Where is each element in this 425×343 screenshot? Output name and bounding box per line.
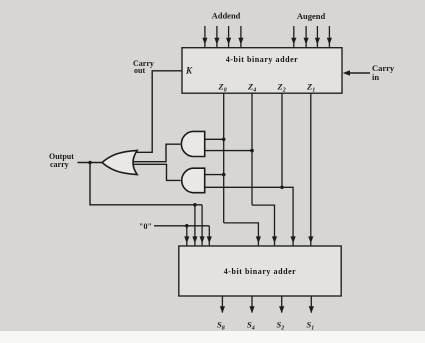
wire zero branch 2 into U2 (207, 226, 212, 246)
wire Z4 jog into U2 (252, 205, 277, 246)
wire output-carry feedback down and right (90, 163, 202, 205)
bottom white band (0, 331, 425, 343)
augend input arrow 4 (327, 26, 332, 47)
output arrow S1 (309, 296, 314, 313)
wire AND1 output jog to OR (133, 144, 181, 162)
augend input arrow 3 (315, 26, 320, 47)
wire "0" line (154, 225, 209, 227)
wire zero branch 1 into U2 (184, 226, 189, 246)
wire Z8 jog into U2 (224, 223, 261, 246)
svg-text:Augend: Augend (297, 11, 326, 21)
wire AND2 output jog to OR (133, 164, 181, 180)
junction dot Z4/AND1 (250, 149, 254, 153)
junction dot Z2/AND2 (280, 186, 284, 190)
wire Z4 vertical (251, 93, 253, 205)
or gate G1 (points left) (102, 150, 137, 174)
wire feedback branch 1 into U2 (192, 205, 197, 246)
addend input arrow 2 (214, 26, 219, 47)
junction dot Z8/AND1 (222, 138, 226, 142)
wire AND1 input B to Z4 (205, 150, 252, 152)
augend input arrow 1 (291, 26, 296, 47)
junction dot on feedback (193, 203, 197, 207)
and gate A1 (points left) (181, 131, 204, 156)
output arrow S4 (249, 296, 254, 313)
wire AND1 input A to Z8 (205, 138, 224, 140)
output arrow S8 (220, 296, 225, 313)
addend input arrow 1 (202, 26, 207, 47)
wire Z2 jog into U2 (282, 187, 296, 246)
junction dot on zero line (185, 224, 189, 228)
and gate A2 (points left) (182, 168, 205, 193)
wire AND2 input A to Z8 (205, 174, 224, 176)
svg-text:carry: carry (50, 160, 69, 169)
junction dot Z8/AND2 (222, 173, 226, 177)
wire Z2 vertical (281, 93, 283, 187)
addend input arrow 4 (238, 26, 243, 47)
svg-text:Addend: Addend (212, 11, 241, 21)
addend input arrow 3 (226, 26, 231, 47)
wire feedback branch 2 into U2 (200, 205, 205, 246)
augend input arrow 2 (304, 26, 309, 47)
output arrow S2 (279, 296, 284, 313)
wire AND2 input B to Z2 (205, 186, 282, 188)
wire OR output to label (78, 162, 103, 164)
wire Z8 vertical (223, 93, 225, 223)
svg-text:4-bit binary adder: 4-bit binary adder (224, 267, 297, 276)
svg-text:in: in (372, 72, 379, 82)
junction node output carry (88, 161, 92, 165)
svg-text:K: K (185, 66, 193, 76)
carry-in arrow into U1 (343, 70, 370, 76)
wire Z1 into U2 (308, 93, 313, 246)
wire K to OR input (carry out) (135, 71, 182, 153)
svg-text:"0": "0" (139, 222, 152, 231)
svg-text:out: out (134, 66, 145, 75)
4-bit binary adder U2 (bottom) (179, 246, 341, 296)
4-bit binary adder U1 (top) (182, 48, 342, 93)
svg-text:4-bit binary adder: 4-bit binary adder (226, 55, 299, 64)
